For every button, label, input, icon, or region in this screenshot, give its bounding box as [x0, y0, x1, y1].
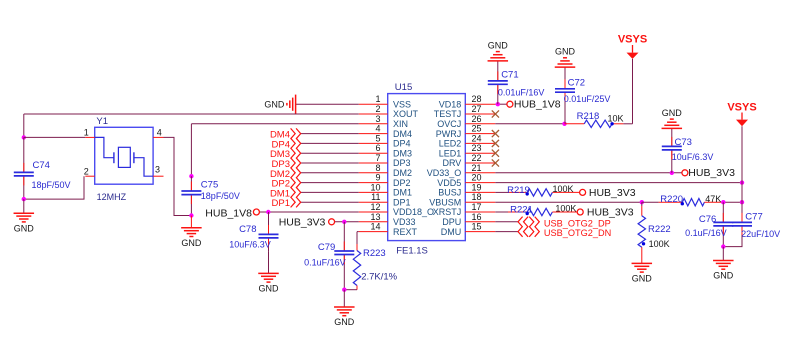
- svg-text:DPU: DPU: [442, 217, 461, 227]
- wire net DM3: [301, 152, 359, 154]
- U15 pin 17 (XRSTJ): [433, 202, 496, 217]
- svg-text:10uF/6.3V: 10uF/6.3V: [229, 239, 271, 249]
- U15 pin 8 (DM2): [359, 163, 412, 178]
- svg-text:12: 12: [370, 202, 380, 212]
- wire R220 to VSYS rail: [723, 201, 742, 203]
- U15 pin 4 (DM4): [359, 124, 412, 139]
- svg-text:13: 13: [370, 212, 380, 222]
- U15 pin 14 (REXT): [359, 222, 418, 237]
- junction node C75-bottom/GND: [189, 213, 193, 217]
- svg-text:0.1uF/16V: 0.1uF/16V: [685, 228, 727, 238]
- svg-text:DP3: DP3: [393, 158, 411, 168]
- resistor R220 47K: [642, 194, 724, 206]
- Y1 pin 4: [153, 128, 163, 138]
- value FE1.1S: [396, 246, 428, 257]
- svg-text:100K: 100K: [555, 203, 576, 213]
- capacitor C73 10uF/6.3V: [662, 128, 714, 172]
- svg-text:15: 15: [472, 222, 482, 232]
- power symbol VSYS (right): [727, 102, 756, 127]
- svg-text:1: 1: [84, 128, 89, 138]
- svg-text:27: 27: [472, 104, 482, 114]
- wire XOUT horizontal: [24, 113, 359, 115]
- svg-text:VBUSM: VBUSM: [429, 197, 461, 207]
- svg-text:C76: C76: [699, 214, 716, 225]
- wire Y1 pin4 to ground rail: [164, 137, 192, 215]
- svg-text:USB_OTG2_DP: USB_OTG2_DP: [544, 218, 611, 228]
- junction node C76/C77 ground: [721, 244, 725, 248]
- signal chevrons + net label USB_OTG2_DP: [518, 217, 611, 229]
- svg-text:12MHZ: 12MHZ: [97, 192, 127, 202]
- svg-text:0.01uF/16V: 0.01uF/16V: [498, 87, 545, 97]
- svg-text:1: 1: [375, 94, 380, 104]
- svg-text:6: 6: [375, 143, 380, 153]
- value 12MHZ: [97, 192, 127, 202]
- U15 pin 11 (DP1): [359, 192, 411, 207]
- svg-text:23: 23: [472, 143, 482, 153]
- capacitor C77 22uF/10V: [732, 202, 780, 239]
- no-connect X on pin 25: [492, 130, 499, 137]
- svg-text:9: 9: [375, 173, 380, 183]
- svg-text:DP4: DP4: [393, 139, 411, 149]
- U15 pin 26 (OVCJ): [437, 114, 495, 129]
- capacitor C75 18pF/50V: [181, 176, 239, 215]
- ground symbol (sideways) on VSS pin 1: [264, 95, 295, 114]
- svg-text:0.01uF/25V: 0.01uF/25V: [564, 94, 611, 104]
- svg-text:DM3: DM3: [393, 148, 412, 158]
- svg-text:HUB_3V3: HUB_3V3: [587, 207, 634, 219]
- svg-text:R223: R223: [363, 248, 386, 259]
- junction node HUB_3V3/C79: [342, 220, 346, 224]
- Y1 pin 1: [84, 128, 95, 138]
- wire net DP3: [301, 162, 359, 164]
- resistor R218 10K: [565, 111, 624, 128]
- svg-text:DP2: DP2: [393, 178, 411, 188]
- U15 pin 22 (DRV): [442, 153, 495, 168]
- power symbol VSYS (left): [618, 34, 647, 59]
- svg-text:C79: C79: [318, 242, 335, 253]
- U15 pin 3 (XIN): [359, 114, 408, 129]
- resistor R222 100K: [638, 202, 671, 263]
- designator U15: [395, 82, 412, 93]
- svg-text:10K: 10K: [608, 114, 624, 124]
- svg-text:16: 16: [472, 212, 482, 222]
- U15 pin 24 (LED2): [439, 133, 496, 148]
- crystal Y1 body: [95, 127, 153, 184]
- wire net DM4: [301, 133, 359, 135]
- ground symbol below R222: [632, 263, 653, 283]
- svg-text:GND: GND: [555, 47, 576, 57]
- U15 pin 6 (DM3): [359, 143, 412, 158]
- wire net DP2: [301, 182, 359, 184]
- svg-text:20: 20: [472, 173, 482, 183]
- U15 pin 18 (VBUSM): [429, 192, 495, 207]
- svg-text:5: 5: [375, 133, 380, 143]
- svg-text:4: 4: [375, 124, 380, 134]
- svg-text:100K: 100K: [553, 184, 574, 194]
- wire pin 17 XRSTJ to R221: [495, 211, 508, 213]
- U15 pin 25 (PWRJ): [436, 124, 496, 139]
- svg-text:HUB_3V3: HUB_3V3: [688, 167, 735, 179]
- svg-text:R219: R219: [507, 185, 530, 196]
- power port HUB_3V3 (left): [279, 217, 335, 229]
- junction node C74-bottom/GND: [22, 197, 26, 201]
- capacitor C78 10uF/6.3V: [229, 212, 278, 251]
- svg-text:14: 14: [370, 222, 380, 232]
- svg-text:GND: GND: [488, 40, 509, 50]
- svg-text:TESTJ: TESTJ: [434, 109, 462, 119]
- U15 pin 5 (DP4): [359, 133, 411, 148]
- svg-text:HUB_1V8: HUB_1V8: [205, 207, 252, 219]
- wire pin 21 VD33_O to HUB_3V3: [495, 172, 682, 174]
- svg-text:VD33_O: VD33_O: [427, 168, 462, 178]
- svg-text:VDD18_O: VDD18_O: [393, 207, 434, 217]
- svg-text:GND: GND: [259, 284, 280, 294]
- junction node VD33_O/C73: [670, 171, 674, 175]
- U15 pin 20 (VDD5): [437, 173, 495, 188]
- U15 pin 23 (LED1): [439, 143, 496, 158]
- svg-text:GND: GND: [334, 317, 355, 327]
- svg-text:21: 21: [472, 163, 482, 173]
- resistor R223 2.7K/1% on REXT: [344, 232, 397, 290]
- U15 pin 1 (VSS): [359, 94, 411, 109]
- signal entry chevrons + net label DP4: [272, 138, 301, 150]
- wire Y1 pin2 to ground rail: [24, 176, 84, 199]
- svg-text:7: 7: [375, 153, 380, 163]
- wire pin 28 to HUB_1V8 port: [495, 103, 507, 105]
- svg-text:GND: GND: [713, 271, 734, 281]
- U15 pin 10 (DM1): [359, 182, 412, 197]
- U15 pin 21 (VD33_O): [427, 163, 496, 178]
- svg-text:HUB_3V3: HUB_3V3: [589, 187, 636, 199]
- power port HUB_3V3 (R219): [580, 187, 636, 199]
- junction node R220/VSYS-rail: [740, 200, 744, 204]
- wire pin1 VSS to GND: [296, 103, 359, 105]
- U15 pin 27 (TESTJ): [434, 104, 496, 119]
- U15 pin 2 (XOUT): [359, 104, 419, 119]
- wire HUB_3V3 to pin 13: [334, 221, 358, 223]
- power port HUB_1V8 (left): [205, 207, 259, 219]
- wire net DP1: [301, 201, 359, 203]
- resistor R221 100K: [508, 203, 577, 215]
- svg-text:2: 2: [375, 104, 380, 114]
- power port HUB_1V8 (right): [507, 99, 561, 111]
- svg-text:10: 10: [370, 182, 380, 192]
- wire net DM2: [301, 172, 359, 174]
- svg-text:R221: R221: [510, 204, 533, 215]
- capacitor C72 0.01uF/25V: [555, 67, 610, 124]
- wire pin 18 VBUSM to divider: [495, 201, 642, 203]
- junction node OVCJ/C72/R218: [562, 122, 566, 126]
- svg-text:17: 17: [472, 202, 482, 212]
- svg-text:2: 2: [84, 166, 89, 176]
- svg-text:8: 8: [375, 163, 380, 173]
- wire pin 19 BUSJ to R219: [495, 191, 508, 193]
- svg-text:22: 22: [472, 153, 482, 163]
- svg-text:FE1.1S: FE1.1S: [396, 246, 428, 257]
- svg-text:25: 25: [472, 124, 482, 134]
- ground symbol above C73: [662, 108, 683, 129]
- wire C77 bottom to ground node: [723, 236, 742, 247]
- svg-text:HUB_3V3: HUB_3V3: [279, 217, 326, 229]
- svg-text:R218: R218: [577, 111, 600, 122]
- ground symbol below C74: [14, 213, 35, 233]
- signal entry chevrons + net label DP1: [272, 197, 301, 209]
- svg-text:C78: C78: [239, 224, 256, 235]
- chip U15 FE1.1S USB hub controller body: [388, 94, 466, 241]
- wire node XOUT to crystal pin 1: [24, 136, 86, 138]
- wire XIN vertical drop: [190, 124, 192, 176]
- signal chevrons + net label USB_OTG2_DN: [518, 226, 611, 238]
- wire R218 to VSYS rail: [623, 59, 632, 124]
- ground symbol above C72: [555, 47, 576, 68]
- svg-text:VSYS: VSYS: [727, 102, 756, 114]
- signal entry chevrons + net label DM1: [270, 187, 301, 199]
- svg-text:VSYS: VSYS: [618, 34, 647, 46]
- svg-text:VD33: VD33: [393, 217, 416, 227]
- Y1 pin 2: [84, 166, 95, 176]
- wire pin 16 DPU: [495, 221, 518, 223]
- svg-text:47K: 47K: [705, 194, 721, 204]
- junction node C79/R223 bottom: [342, 288, 346, 292]
- no-connect X on pin 27: [492, 110, 499, 117]
- svg-text:BUSJ: BUSJ: [438, 188, 461, 198]
- svg-text:DM4: DM4: [393, 129, 412, 139]
- wire R223/C79 to ground: [343, 290, 345, 307]
- svg-text:10uF/6.3V: 10uF/6.3V: [672, 152, 714, 162]
- svg-text:LED2: LED2: [439, 139, 462, 149]
- wire net DP4: [301, 142, 359, 144]
- wire pin 15 DMU: [495, 231, 518, 233]
- svg-text:XRSTJ: XRSTJ: [433, 207, 462, 217]
- power port HUB_3V3 (R221): [577, 207, 634, 219]
- capacitor C79 0.1uF/16V: [304, 222, 354, 290]
- U15 pin 7 (DP3): [359, 153, 411, 168]
- svg-text:DRV: DRV: [442, 158, 461, 168]
- U15 pin 28 (VD18): [439, 94, 496, 109]
- ground symbol below C76/C77: [713, 261, 734, 281]
- junction node VD18/C71: [496, 102, 500, 106]
- wire C76/C77 to ground: [722, 247, 724, 261]
- no-connect X on pin 22: [492, 159, 499, 166]
- junction node VBUSM/R220/R222: [640, 200, 644, 204]
- U15 pin 15 (DMU): [441, 222, 496, 237]
- signal entry chevrons + net label DM3: [270, 148, 301, 160]
- capacitor C74 18pF/50V: [14, 137, 71, 199]
- designator Y1: [96, 116, 108, 127]
- U15 pin 19 (BUSJ): [438, 182, 495, 197]
- svg-text:VDD5: VDD5: [437, 178, 461, 188]
- svg-text:USB_OTG2_DN: USB_OTG2_DN: [544, 228, 611, 238]
- svg-text:GND: GND: [181, 238, 202, 248]
- power port HUB_3V3 (right): [682, 167, 735, 179]
- svg-text:18pF/50V: 18pF/50V: [32, 180, 71, 190]
- svg-text:2.7K/1%: 2.7K/1%: [361, 271, 397, 282]
- U15 pin 9 (DP2): [359, 173, 411, 188]
- svg-text:C74: C74: [33, 160, 50, 171]
- svg-text:DM2: DM2: [393, 168, 412, 178]
- junction node XOUT/C74/Y1-pin1: [22, 135, 26, 139]
- svg-text:HUB_1V8: HUB_1V8: [514, 99, 561, 111]
- signal entry chevrons + net label DM2: [270, 168, 301, 180]
- svg-text:R220: R220: [660, 194, 683, 205]
- svg-text:U15: U15: [395, 82, 412, 93]
- svg-text:LED1: LED1: [439, 148, 462, 158]
- svg-text:Y1: Y1: [96, 116, 108, 127]
- svg-text:DM1: DM1: [393, 188, 412, 198]
- svg-text:R222: R222: [648, 224, 671, 235]
- U15 pin 12 (VDD18_O): [359, 202, 434, 217]
- svg-text:24: 24: [472, 133, 482, 143]
- svg-text:DP1: DP1: [393, 197, 411, 207]
- ground symbol below C75: [181, 228, 202, 248]
- wire XOUT vertical drop: [23, 114, 25, 137]
- junction node VDD5/VSYS-rail: [740, 180, 744, 184]
- signal entry chevrons + net label DM4: [270, 128, 301, 140]
- junction node XIN/C75/Y1-pin3: [189, 174, 193, 178]
- resistor R219 100K: [507, 184, 580, 196]
- svg-text:REXT: REXT: [393, 227, 418, 237]
- svg-text:GND: GND: [632, 274, 653, 284]
- wire C74 to ground: [23, 199, 25, 213]
- svg-text:C77: C77: [745, 212, 762, 223]
- ground symbol below C78: [258, 273, 279, 293]
- svg-text:3: 3: [155, 165, 160, 175]
- junction node HUB_1V8/C78: [266, 210, 270, 214]
- svg-text:C75: C75: [201, 179, 218, 190]
- svg-text:PWRJ: PWRJ: [436, 129, 462, 139]
- svg-text:0.1uF/16V: 0.1uF/16V: [304, 258, 346, 268]
- svg-text:26: 26: [472, 114, 482, 124]
- svg-text:XOUT: XOUT: [393, 109, 419, 119]
- svg-text:C73: C73: [675, 137, 692, 148]
- svg-text:VSS: VSS: [393, 99, 411, 109]
- no-connect X on pin 23: [492, 150, 499, 157]
- Y1 pin 3: [153, 165, 163, 177]
- signal entry chevrons + net label DP3: [272, 158, 301, 170]
- capacitor C71 0.01uF/16V: [488, 61, 545, 104]
- wire XIN horizontal: [191, 123, 358, 125]
- capacitor C76 0.1uF/16V: [685, 202, 733, 246]
- svg-text:11: 11: [371, 192, 380, 202]
- svg-text:XIN: XIN: [393, 119, 408, 129]
- svg-text:C72: C72: [568, 78, 585, 89]
- svg-text:18pF/50V: 18pF/50V: [201, 191, 240, 201]
- signal entry chevrons + net label DP2: [272, 177, 301, 189]
- svg-text:100K: 100K: [649, 239, 670, 249]
- svg-text:3: 3: [375, 114, 380, 124]
- svg-text:DMU: DMU: [441, 227, 462, 237]
- ground symbol below C79/R223: [334, 307, 355, 327]
- wire pin 26 OVCJ to R218: [495, 123, 564, 125]
- wire VSYS rail (right): [741, 126, 743, 202]
- svg-text:19: 19: [472, 182, 482, 192]
- svg-text:18: 18: [472, 192, 482, 202]
- svg-text:22uF/10V: 22uF/10V: [741, 229, 780, 239]
- ground symbol above C71: [488, 40, 509, 61]
- svg-text:4: 4: [157, 128, 162, 138]
- wire HUB_1V8 to pin 12: [259, 211, 358, 213]
- wire pin 20 VDD5 to VSYS rail: [495, 182, 742, 184]
- wire C75 to ground: [190, 216, 192, 228]
- svg-text:GND: GND: [14, 223, 35, 233]
- wire C78 to ground: [268, 251, 270, 273]
- svg-text:C71: C71: [501, 70, 518, 81]
- svg-text:GND: GND: [662, 108, 683, 118]
- no-connect X on pin 24: [492, 140, 499, 147]
- wire net DM1: [301, 191, 359, 193]
- svg-text:OVCJ: OVCJ: [437, 119, 461, 129]
- junction node R220/C76: [721, 200, 725, 204]
- svg-text:GND: GND: [264, 100, 285, 110]
- svg-text:28: 28: [472, 94, 482, 104]
- svg-text:DP1: DP1: [272, 198, 290, 209]
- svg-text:VD18: VD18: [439, 99, 462, 109]
- U15 pin 16 (DPU): [442, 212, 495, 227]
- U15 pin 13 (VD33): [359, 212, 416, 227]
